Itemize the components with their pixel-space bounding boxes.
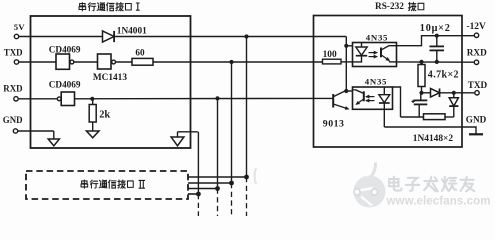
svg-text:1N4148×2: 1N4148×2 — [413, 134, 454, 144]
svg-text:TXD: TXD — [468, 80, 488, 90]
svg-text:RS-232: RS-232 — [375, 2, 404, 12]
svg-text:GND: GND — [466, 115, 487, 125]
svg-text:-12V: -12V — [467, 22, 486, 32]
svg-text:9013: 9013 — [323, 118, 345, 129]
svg-text:www.elecfans.com: www.elecfans.com — [386, 196, 491, 208]
svg-text:5V: 5V — [14, 22, 25, 32]
svg-text:4.7k×2: 4.7k×2 — [428, 70, 459, 81]
svg-text:100: 100 — [323, 50, 337, 60]
svg-text:RXD: RXD — [467, 48, 487, 58]
svg-text:CD4069: CD4069 — [49, 45, 81, 55]
svg-text:10μ×2: 10μ×2 — [420, 23, 451, 34]
svg-text:MC1413: MC1413 — [93, 73, 127, 83]
svg-text:60: 60 — [135, 47, 145, 57]
svg-text:4N35: 4N35 — [365, 77, 387, 87]
svg-text:GND: GND — [3, 115, 23, 125]
svg-text:1N4001: 1N4001 — [117, 26, 147, 36]
svg-text:RXD: RXD — [3, 83, 22, 93]
svg-text:4N35: 4N35 — [366, 32, 388, 42]
svg-text:2k: 2k — [99, 110, 110, 121]
svg-text:TXD: TXD — [4, 48, 23, 58]
svg-text:CD4069: CD4069 — [49, 79, 81, 89]
